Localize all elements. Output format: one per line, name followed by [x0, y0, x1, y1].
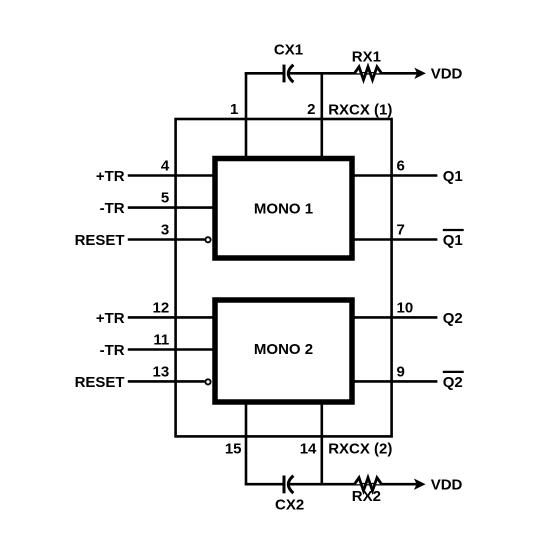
- svg-text:9: 9: [397, 364, 405, 381]
- resistor RX2 zigzag: [355, 478, 382, 491]
- wire top horizontal from pin1 to CX1: [245, 72, 283, 75]
- svg-text:Q2: Q2: [443, 310, 463, 327]
- wire bottom horizontal from pin15 to CX2: [245, 483, 283, 486]
- svg-text:-TR: -TR: [100, 342, 125, 359]
- wire pin2 vertical (top wire to MONO 1): [320, 73, 323, 158]
- svg-text:RX1: RX1: [352, 49, 381, 66]
- capacitor CX1 curved plate: [288, 65, 293, 82]
- wire +TR pin 4: [128, 174, 215, 177]
- wire Q2-bar pin 9: [352, 380, 437, 383]
- wire Q1-bar pin 7: [352, 238, 437, 241]
- svg-text:7: 7: [397, 222, 405, 239]
- svg-text:RESET: RESET: [75, 374, 125, 391]
- svg-text:RESET: RESET: [75, 232, 125, 249]
- svg-text:5: 5: [161, 190, 169, 207]
- svg-text:+TR: +TR: [96, 310, 125, 327]
- svg-text:CX2: CX2: [275, 497, 304, 514]
- svg-text:6: 6: [397, 158, 405, 175]
- label Q1-bar overline: [443, 229, 464, 231]
- wire Q1 pin 6: [352, 174, 437, 177]
- svg-text:3: 3: [161, 222, 169, 239]
- svg-text:4: 4: [161, 158, 170, 175]
- svg-text:+TR: +TR: [96, 168, 125, 185]
- resistor RX1 zigzag: [355, 67, 382, 80]
- wire -TR pin 5: [128, 206, 215, 209]
- svg-text:MONO 2: MONO 2: [254, 341, 313, 358]
- inversion bubble RESET pin 3: [205, 237, 210, 242]
- svg-text:Q2: Q2: [443, 374, 463, 391]
- wire top horizontal from CX1 through pin2 node to RX1 and arrow: [288, 72, 417, 75]
- svg-text:2: 2: [307, 101, 315, 118]
- capacitor CX2 curved plate: [288, 476, 293, 493]
- svg-text:RXCX (2): RXCX (2): [328, 441, 392, 458]
- wire Q2 pin 10: [352, 316, 437, 319]
- svg-text:15: 15: [225, 441, 242, 458]
- arrowhead to VDD (top): [415, 69, 424, 78]
- svg-text:RXCX (1): RXCX (1): [328, 101, 392, 118]
- svg-text:13: 13: [153, 364, 170, 381]
- wire pin14 vertical (MONO 2 to bottom wire): [320, 402, 323, 484]
- svg-text:VDD: VDD: [431, 476, 463, 493]
- wire pin15 vertical (MONO 2 to bottom wire): [245, 402, 248, 484]
- svg-text:14: 14: [300, 441, 317, 458]
- svg-text:VDD: VDD: [431, 66, 463, 83]
- svg-text:12: 12: [153, 300, 170, 317]
- wire bottom horizontal from CX2 through pin14 node to RX2 and arrow: [288, 483, 416, 486]
- wire pin1 vertical (top wire to MONO 1): [245, 73, 248, 158]
- wire RESET pin 3: [128, 238, 205, 241]
- svg-text:CX1: CX1: [274, 42, 303, 59]
- wire +TR pin 12: [128, 316, 215, 319]
- wire RESET pin 13: [128, 380, 205, 383]
- monostable MONO 2 box: [215, 300, 352, 402]
- svg-text:11: 11: [153, 332, 169, 349]
- svg-text:Q1: Q1: [443, 232, 463, 249]
- label Q2-bar overline: [443, 371, 464, 373]
- capacitor CX2 left plate: [283, 476, 286, 494]
- svg-text:RX2: RX2: [352, 488, 381, 505]
- svg-text:-TR: -TR: [100, 200, 125, 217]
- monostable MONO 1 box: [215, 159, 352, 259]
- inversion bubble RESET pin 13: [205, 379, 210, 384]
- svg-text:10: 10: [397, 300, 414, 317]
- IC package outline rectangle: [176, 119, 392, 436]
- capacitor CX1 left plate: [283, 65, 286, 83]
- arrowhead to VDD (bottom): [415, 480, 424, 489]
- wire -TR pin 11: [128, 348, 215, 351]
- svg-text:1: 1: [230, 101, 238, 118]
- svg-text:MONO 1: MONO 1: [254, 201, 313, 218]
- svg-text:Q1: Q1: [443, 168, 463, 185]
